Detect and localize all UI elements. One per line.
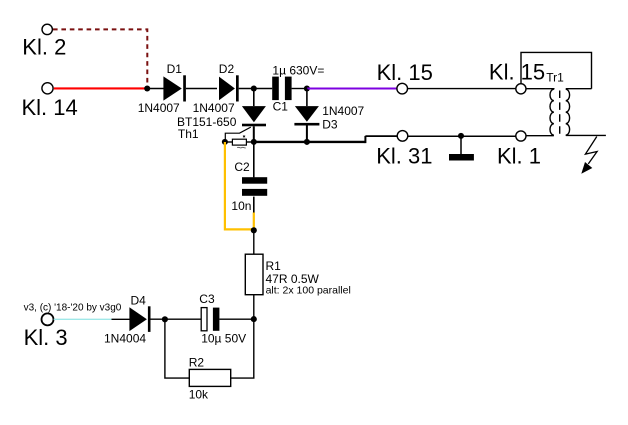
wire bottom rail Th1 to step (thick) <box>254 141 366 143</box>
svg-text:v3, (c) '18-'20 by v3g0: v3, (c) '18-'20 by v3g0 <box>24 302 122 313</box>
wire node to R1 <box>253 230 255 254</box>
wire red Kl.14 to node <box>54 87 147 89</box>
svg-text:D1: D1 <box>167 62 183 76</box>
terminal Kl. 15 <box>397 83 408 94</box>
svg-text:1µ 630V=: 1µ 630V= <box>272 63 324 77</box>
svg-text:Kl. 14: Kl. 14 <box>22 95 78 120</box>
svg-text:Kl. 15: Kl. 15 <box>489 60 545 85</box>
node top of Th1 <box>251 85 257 91</box>
gate resistor <box>232 136 246 148</box>
thyristor Th1 anode wire <box>253 89 255 107</box>
svg-text:D2: D2 <box>219 62 235 76</box>
svg-text:R1: R1 <box>266 259 282 273</box>
wire pale cyan Kl.3 <box>54 318 112 320</box>
wire yellow C2 to node <box>253 213 255 231</box>
wire Kl.1 to primary bottom <box>526 135 554 137</box>
wire Kl.15 to Kl.15(Tr1) <box>408 88 516 90</box>
svg-text:C1: C1 <box>273 100 289 114</box>
terminal Kl. 15 (Tr1) <box>516 84 526 94</box>
ground <box>449 136 474 161</box>
wire C3 to node <box>219 318 253 320</box>
wire Th1 cathode to node <box>253 126 255 142</box>
diode D4 <box>129 306 150 332</box>
wire D2 to C1 <box>239 88 273 90</box>
diode D3 anode wire <box>306 89 308 107</box>
transformer Tr1 secondary winding <box>566 89 570 135</box>
wire R2 loop right <box>231 319 254 378</box>
transformer Tr1 housing box <box>521 52 592 88</box>
wire D1 to D2 <box>186 88 217 90</box>
wire dashed dark-red Kl.2 to node <box>53 29 147 84</box>
node top of D3 <box>304 85 310 91</box>
svg-text:Kl. 2: Kl. 2 <box>22 35 66 60</box>
resistor R2 <box>189 369 230 386</box>
wire step up <box>364 136 366 143</box>
svg-text:D4: D4 <box>131 293 147 307</box>
node Th1 cathode <box>251 139 257 145</box>
svg-text:C2: C2 <box>234 160 250 174</box>
capacitor C1 <box>272 77 291 101</box>
svg-text:Kl. 1: Kl. 1 <box>497 143 541 168</box>
svg-text:1N4007: 1N4007 <box>193 101 235 115</box>
diode D2 <box>219 75 239 101</box>
svg-text:R2: R2 <box>189 356 205 370</box>
node junction Kl.14/Kl.2 <box>144 85 150 91</box>
wire step to Kl.31 <box>365 135 397 137</box>
wire Kl.15(Tr1) to primary <box>526 88 555 90</box>
spark gap arrow <box>581 137 597 174</box>
wire to D4 <box>112 318 130 320</box>
diode D1 <box>163 75 186 101</box>
node C2/R1 <box>251 227 257 233</box>
wire secondary bottom output <box>566 134 606 136</box>
terminal Kl. 3 <box>42 313 54 325</box>
node D4/R2 <box>162 316 168 322</box>
svg-text:C3: C3 <box>199 292 215 306</box>
svg-text:10n: 10n <box>231 199 251 213</box>
svg-text:Th1: Th1 <box>178 127 199 141</box>
wire purple node to Kl.15 <box>307 87 397 89</box>
terminal Kl. 2 <box>42 24 52 34</box>
svg-text:1N4007: 1N4007 <box>322 104 364 118</box>
terminal Kl. 31 <box>397 131 408 142</box>
svg-text:alt: 2x 100 parallel: alt: 2x 100 parallel <box>266 285 351 297</box>
wire R1 to bottom node <box>253 295 255 320</box>
transformer Tr1 core <box>559 91 561 136</box>
wire R2 loop left <box>165 319 189 378</box>
diode D3 <box>294 106 319 125</box>
svg-text:Kl. 3: Kl. 3 <box>24 325 68 350</box>
wire resistor to cathode node <box>247 141 254 143</box>
svg-text:Kl. 15: Kl. 15 <box>377 60 433 85</box>
wire yellow gate to node <box>225 142 253 229</box>
resistor R1 <box>245 254 263 295</box>
wire secondary top to box <box>566 88 592 90</box>
svg-text:10k: 10k <box>189 388 209 402</box>
svg-text:D3: D3 <box>322 117 338 131</box>
node R1/C3/R2 <box>251 316 257 322</box>
svg-text:1N4007: 1N4007 <box>138 101 180 115</box>
transformer Tr1 primary winding <box>550 89 554 135</box>
wire C2 bottom lead <box>253 197 255 213</box>
node gate <box>222 139 228 145</box>
svg-text:1N4004: 1N4004 <box>104 331 146 345</box>
wire gate node to resistor <box>225 141 233 143</box>
svg-text:Tr1: Tr1 <box>546 71 564 85</box>
terminal Kl. 14 <box>42 83 53 94</box>
capacitor C3 (polarized) <box>201 308 219 331</box>
svg-text:Kl. 31: Kl. 31 <box>376 143 432 168</box>
node ground tap <box>458 133 464 139</box>
node D3 bottom <box>304 139 310 145</box>
terminal Kl. 1 <box>516 131 526 141</box>
wire D3 cathode to node <box>306 126 308 142</box>
wire Kl.31 to Kl.1 <box>408 135 516 137</box>
svg-text:10µ 50V: 10µ 50V <box>201 331 246 345</box>
thyristor Th1 <box>225 106 266 142</box>
wire C1 to node <box>292 88 307 90</box>
wire node to D1 <box>147 88 163 90</box>
wire node to C2 <box>253 142 255 178</box>
wire D4 to C3 <box>151 318 201 320</box>
capacitor C2 <box>242 177 267 196</box>
